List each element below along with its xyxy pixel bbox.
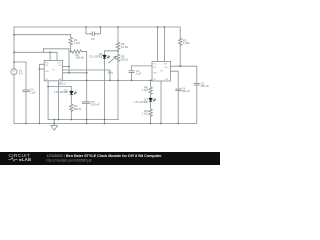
- svg-text:1 kΩ: 1 kΩ: [142, 88, 148, 92]
- svg-text:1 MΩ: 1 MΩ: [183, 41, 190, 45]
- svg-text:1 µF: 1 µF: [136, 72, 142, 76]
- svg-text:12345002 / Ben Eater STYLE Clo: 12345002 / Ben Eater STYLE Clock Module …: [47, 154, 163, 158]
- svg-text:1 µF: 1 µF: [30, 90, 36, 94]
- svg-text:OUT: OUT: [164, 67, 168, 69]
- svg-text:555: 555: [52, 70, 55, 72]
- svg-text:100 nF: 100 nF: [182, 89, 191, 93]
- svg-text:100 kΩ: 100 kΩ: [76, 56, 85, 60]
- svg-text:RST: RST: [164, 64, 167, 66]
- svg-text:1 kΩ: 1 kΩ: [142, 112, 148, 116]
- svg-text:D2: D2: [64, 88, 68, 92]
- svg-text:100 nF: 100 nF: [91, 103, 100, 107]
- svg-text:http://circuitlab.com/c/6658f2: http://circuitlab.com/c/6658f2pd/: [47, 158, 92, 162]
- svg-text:OUT: OUT: [58, 65, 62, 67]
- svg-text:LTL-307EE: LTL-307EE: [134, 100, 148, 104]
- svg-text:555_2: 555_2: [59, 81, 67, 85]
- svg-text:5 V: 5 V: [19, 72, 23, 76]
- svg-text:100 nF: 100 nF: [201, 84, 210, 88]
- svg-text:D1: D1: [99, 52, 103, 56]
- svg-text:▸LAB: ▸LAB: [19, 157, 32, 162]
- svg-text:50%: 50%: [108, 70, 114, 74]
- svg-text:1 kΩ: 1 kΩ: [74, 41, 80, 45]
- svg-text:10 kΩ: 10 kΩ: [121, 45, 128, 49]
- svg-text:560 Ω: 560 Ω: [74, 107, 81, 111]
- svg-text:555: 555: [160, 70, 163, 72]
- svg-text:500 Ω: 500 Ω: [121, 57, 128, 61]
- svg-text:C3: C3: [91, 37, 95, 41]
